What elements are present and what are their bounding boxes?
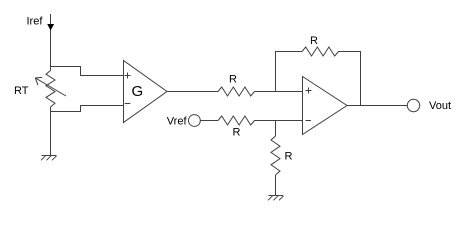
svg-text:R: R [285, 151, 293, 163]
svg-text:R: R [229, 74, 237, 86]
svg-text:G: G [132, 83, 144, 100]
svg-text:RT: RT [14, 85, 29, 97]
svg-text:R: R [310, 35, 318, 47]
svg-text:R: R [233, 127, 241, 139]
svg-text:Iref: Iref [27, 16, 44, 28]
svg-text:Vref: Vref [167, 116, 188, 128]
svg-text:Vout: Vout [429, 100, 451, 112]
